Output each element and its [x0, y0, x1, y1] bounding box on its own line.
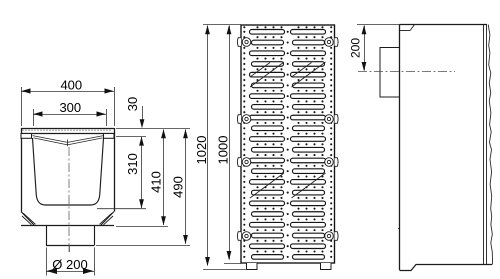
outlet pipe stub (side view): [380, 48, 400, 98]
right bearing lip block: [104, 134, 115, 139]
svg-text:1020: 1020: [194, 136, 209, 165]
dimension 30: [142, 106, 144, 124]
outlet pipe stub (left view): [46, 226, 48, 246]
svg-text:1000: 1000: [216, 136, 231, 165]
svg-text:300: 300: [59, 100, 81, 115]
side view break edge: [488, 25, 492, 265]
left bearing lip block: [21, 134, 32, 139]
pipe centerline (side view): [358, 71, 455, 73]
svg-text:410: 410: [148, 171, 163, 193]
svg-text:400: 400: [60, 77, 82, 92]
channel body outer walls (left view): [21, 128, 23, 212]
left end foot: [247, 263, 258, 270]
dimension 400: [21, 87, 23, 126]
grate V profile (section): [33, 136, 104, 145]
right bottom chamfer with bevel lines: [101, 212, 115, 226]
side view bottom with foot: [400, 265, 493, 271]
left bottom chamfer with bevel lines: [21, 212, 35, 226]
dimension 1020: [207, 26, 209, 266]
extension line top surface: [116, 128, 190, 130]
extension line side top: [357, 24, 400, 26]
svg-text:30: 30: [125, 97, 140, 111]
grate slot pattern: [250, 30, 285, 35]
side view left wall: [399, 25, 401, 271]
pattern break diagonals upper: [250, 62, 284, 87]
channel bottom line: [21, 225, 114, 227]
dimension 310: [141, 137, 143, 208]
dimension 300: [33, 109, 35, 126]
svg-text:Ø 200: Ø 200: [52, 257, 87, 272]
svg-text:200: 200: [348, 38, 362, 58]
cast surface dots: [243, 31, 245, 33]
dimension 1000: [229, 26, 231, 260]
inner channel cavity wall: [33, 138, 104, 205]
dimension 200 (side view): [364, 26, 366, 71]
side view top edge: [400, 24, 488, 26]
grate locking ears: [237, 38, 241, 47]
side view inner wall lines: [483, 25, 485, 265]
extension line grate top: [203, 24, 241, 26]
dimension 410: [163, 130, 165, 226]
vertical centerline: [68, 147, 70, 252]
grate outer frame (plan view): [241, 25, 335, 263]
pattern break diagonals lower: [250, 173, 284, 198]
extension line lip underside: [116, 136, 146, 138]
svg-text:490: 490: [170, 176, 185, 198]
channel top frame band with grate edge (left view): [21, 128, 114, 130]
dimension diameter 200: [46, 248, 48, 276]
right end foot: [321, 263, 332, 270]
side view end-cap step: [400, 30, 411, 32]
dimension 490: [185, 130, 187, 244]
svg-text:310: 310: [125, 153, 140, 175]
